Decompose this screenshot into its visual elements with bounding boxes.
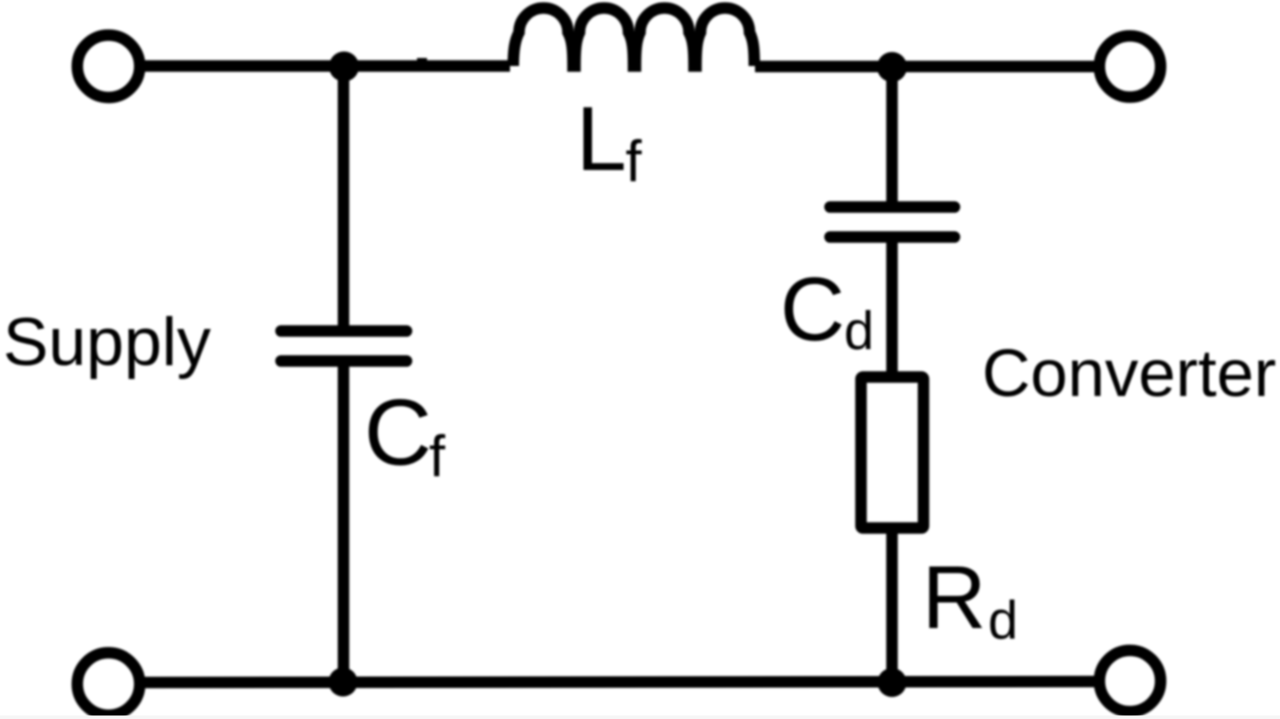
capacitor C1 bottom plate bbox=[281, 355, 407, 367]
wire Rd lower bbox=[886, 528, 898, 683]
svg-text:C: C bbox=[364, 379, 432, 484]
node bottom-left junction bbox=[329, 668, 358, 697]
svg-text:Converter: Converter bbox=[982, 336, 1276, 411]
svg-text:R: R bbox=[922, 547, 986, 647]
svg-text:f: f bbox=[429, 424, 446, 489]
bottom border line bbox=[0, 716, 1280, 719]
resistor R1 box bbox=[861, 377, 924, 528]
wire Cd to Rd bbox=[886, 240, 898, 377]
terminal top-right bbox=[1099, 36, 1160, 97]
wire top-right rail bbox=[755, 61, 1096, 73]
svg-text:C: C bbox=[780, 260, 845, 360]
wire Cd branch upper bbox=[886, 67, 898, 204]
wire Cf branch upper bbox=[338, 66, 350, 328]
capacitor C1 top plate bbox=[281, 325, 407, 337]
svg-text:L: L bbox=[576, 89, 627, 190]
wire Cf branch lower bbox=[338, 364, 350, 682]
terminal bottom-left bbox=[77, 653, 139, 715]
node top-left junction bbox=[329, 52, 359, 82]
svg-text:f: f bbox=[626, 129, 643, 194]
wire top-left rail bbox=[144, 60, 510, 72]
inductor L1 coil bbox=[513, 8, 754, 66]
capacitor C2 top plate bbox=[830, 201, 955, 213]
svg-text:d: d bbox=[844, 301, 874, 361]
wire bottom-left rail bbox=[144, 682, 1096, 683]
node top-right junction bbox=[877, 52, 907, 82]
svg-text:d: d bbox=[988, 591, 1018, 651]
node bottom-right junction bbox=[878, 668, 907, 697]
capacitor C2 bottom plate bbox=[830, 231, 955, 243]
svg-text:Supply: Supply bbox=[3, 304, 211, 380]
terminal top-left bbox=[77, 35, 139, 97]
wire stub artifact bbox=[417, 58, 427, 66]
terminal bottom-right bbox=[1099, 650, 1160, 711]
